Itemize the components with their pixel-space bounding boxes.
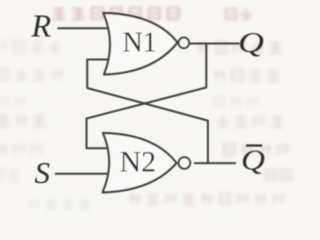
inverter bubble N1 xyxy=(179,38,190,49)
svg-text:N1: N1 xyxy=(123,28,157,59)
wire Qbar output xyxy=(194,162,236,164)
wire S input xyxy=(55,173,109,175)
svg-text:S: S xyxy=(35,155,51,190)
svg-text:R: R xyxy=(31,8,52,44)
nor-gate N1 body xyxy=(103,13,177,75)
wire feedback Q to N2 input xyxy=(87,44,207,149)
svg-text:N2: N2 xyxy=(120,145,157,178)
wire R input xyxy=(58,27,110,29)
svg-text:Q: Q xyxy=(238,27,264,59)
wire Q output xyxy=(190,43,240,45)
output label Qbar xyxy=(241,144,265,176)
svg-text:Q: Q xyxy=(241,144,265,176)
nor-gate N2 body xyxy=(103,133,177,192)
wire feedback Qbar to N1 input xyxy=(87,60,208,164)
inverter bubble N2 xyxy=(179,157,191,169)
